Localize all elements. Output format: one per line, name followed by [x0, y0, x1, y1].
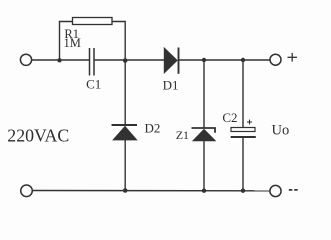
svg-text:D1: D1 — [163, 78, 179, 93]
diode D2 cathode bar — [112, 124, 138, 126]
node B (junction above D2) — [123, 58, 128, 63]
terminal: AC input top-left — [20, 54, 31, 65]
node G (junction below C2) — [241, 189, 245, 193]
capacitor C1 left plate — [89, 48, 91, 76]
diode D1 cathode bar — [178, 48, 180, 74]
terminal: - output — [270, 185, 281, 196]
plus sign of output — [288, 53, 298, 62]
wire: node D down to C2 — [242, 60, 244, 128]
terminal: + output — [270, 54, 281, 65]
wire: R1 right leg — [112, 22, 125, 61]
node F (junction below Z1) — [202, 189, 206, 193]
plus sign of C2 — [247, 120, 252, 125]
wire: node C to node D — [204, 59, 243, 61]
svg-text:Uo: Uo — [272, 123, 290, 139]
node C (junction above Z1) — [202, 58, 206, 62]
capacitor C1 right plate — [93, 48, 95, 76]
node D (junction above C2) — [241, 58, 245, 62]
minus sign of output (double dash) — [289, 189, 298, 191]
wire: D2 anode down to node E — [124, 140, 126, 191]
node E (junction below D2) — [123, 188, 128, 193]
wire: bottom rail — [32, 190, 270, 192]
svg-text:C1: C1 — [86, 76, 101, 91]
capacitor C2 positive plate (hollow) — [231, 128, 255, 132]
wire: node A to C1 — [60, 59, 90, 61]
svg-text:220VAC: 220VAC — [7, 126, 69, 146]
wire: D1 cathode to node C — [179, 59, 205, 61]
terminal: AC input bottom-left — [21, 185, 33, 197]
resistor R1 body — [73, 18, 113, 25]
capacitor C2 negative plate — [231, 136, 256, 138]
wire: node B down to D2 — [124, 60, 126, 125]
wire: node C down to Z1 — [203, 60, 205, 128]
wire: C1 to node B — [94, 59, 125, 61]
svg-text:D2: D2 — [144, 121, 160, 136]
svg-text:Z1: Z1 — [176, 128, 189, 142]
wire: Z1 anode down to node F — [203, 141, 205, 191]
wire: C2 down to node G — [242, 137, 244, 191]
zener Z1 cathode bar with bent end — [192, 128, 216, 133]
diode D1 triangle — [164, 48, 177, 73]
svg-text:C2: C2 — [222, 110, 237, 125]
wire: R1 left leg — [60, 22, 73, 61]
diode D2 triangle — [113, 126, 137, 140]
wire: input terminal to node A — [32, 59, 60, 61]
zener Z1 triangle — [193, 129, 216, 141]
wire: node D to + output terminal — [243, 59, 270, 61]
wire: node B to D1 anode — [125, 59, 164, 61]
svg-text:1M: 1M — [64, 36, 81, 50]
node A (junction top-left) — [57, 58, 61, 62]
